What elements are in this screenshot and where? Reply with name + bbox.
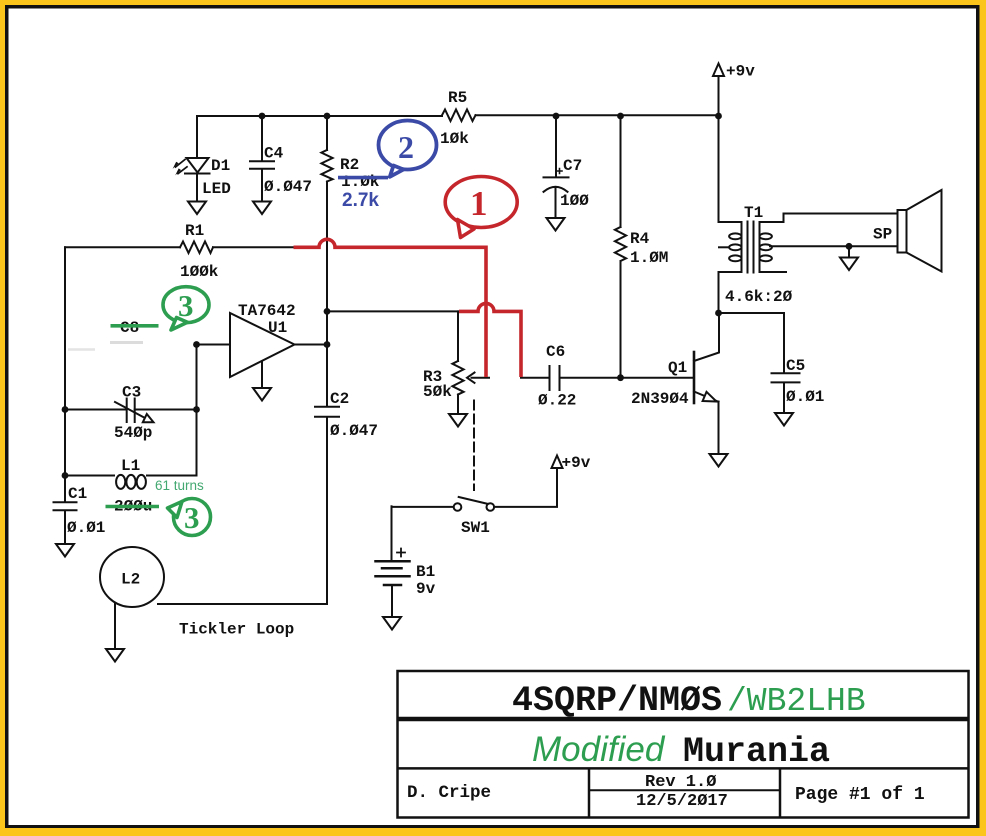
svg-text:54Øp: 54Øp <box>114 424 152 442</box>
svg-text:+9v: +9v <box>562 454 591 472</box>
+9v arrow at switch <box>552 456 563 469</box>
erased wire artifact near C8 <box>110 341 143 344</box>
wire U1 ground stem <box>261 362 263 389</box>
wire T1 secondary top lead to speaker <box>760 214 898 223</box>
svg-text:Ø.Ø1: Ø.Ø1 <box>67 519 105 537</box>
wire top rail right segment <box>476 114 719 116</box>
inductor L2 loop <box>100 547 164 607</box>
ground under D1 <box>188 202 206 215</box>
svg-text:C4: C4 <box>264 145 284 163</box>
svg-text:D. Cripe: D. Cripe <box>407 783 491 803</box>
wire D1 bottom stem <box>196 174 198 202</box>
wire T1 secondary tap to speaker <box>770 245 898 247</box>
svg-text:R5: R5 <box>448 89 467 107</box>
ground under U1 <box>253 388 271 401</box>
capacitor C4 plates <box>250 161 274 168</box>
Q1 emitter <box>694 392 719 402</box>
svg-text:SP: SP <box>873 226 892 244</box>
svg-text:C7: C7 <box>563 157 582 175</box>
wire R3 top lead <box>457 311 459 361</box>
wire U1 input lead <box>197 344 231 346</box>
wire L2 left lead <box>114 604 116 649</box>
svg-text:9v: 9v <box>416 580 436 598</box>
Q1 emitter arrowhead <box>703 392 717 402</box>
node dots <box>62 113 853 479</box>
T1 primary center-tap stub <box>719 246 729 248</box>
capacitor C3 trimmer arrow <box>115 402 146 419</box>
wire wiper to C6 <box>521 377 550 379</box>
svg-text:5Øk: 5Øk <box>423 383 452 401</box>
svg-text:C1: C1 <box>68 485 87 503</box>
capacitor C6 plates <box>550 366 560 390</box>
wire C5 bottom stem <box>783 383 785 413</box>
red modification wire 2 <box>459 303 521 377</box>
svg-text:TA7642: TA7642 <box>238 302 296 320</box>
svg-text:L1: L1 <box>121 457 140 475</box>
wire R4 top lead <box>620 116 622 227</box>
svg-text:Ø.Ø47: Ø.Ø47 <box>264 178 312 196</box>
junction R2/top rail <box>324 113 331 120</box>
dashed mechanical link R3 to SW1 <box>473 401 475 491</box>
svg-text:C8: C8 <box>120 319 139 337</box>
capacitor C5 plates <box>772 373 800 382</box>
svg-text:R1: R1 <box>185 222 204 240</box>
resistor R5 <box>442 110 476 122</box>
wire C5 top lead <box>719 313 785 372</box>
junction left rail/L1 <box>62 472 69 479</box>
junction left rail/C3 <box>62 406 69 413</box>
green strike over 200u <box>106 505 160 509</box>
green strike over C8 <box>111 324 159 328</box>
speaker SP body <box>898 210 907 253</box>
svg-text:1ØØk: 1ØØk <box>180 263 219 281</box>
wire C3 left lead <box>65 409 126 411</box>
svg-text:1ØØ: 1ØØ <box>560 192 589 210</box>
wire U1 output lead <box>295 344 328 346</box>
svg-text:1.Øk: 1.Øk <box>341 173 380 191</box>
op-amp U1 TA7642 triangle <box>230 313 295 377</box>
resistor R4 <box>615 227 626 264</box>
C7 polarity plus <box>557 169 562 174</box>
svg-text:61 turns: 61 turns <box>155 478 204 493</box>
switch SW1 right wire <box>494 469 557 507</box>
svg-text:1Øk: 1Øk <box>440 130 469 148</box>
junction C4/top rail <box>259 113 266 120</box>
+9v arrow top right <box>713 64 724 77</box>
wire L1 right lead <box>147 475 197 477</box>
switch SW1 left wire <box>392 506 454 508</box>
T1 secondary bottom stub <box>760 271 787 273</box>
resistor R3 potentiometer <box>452 361 463 395</box>
Q1 collector <box>694 313 719 361</box>
capacitor C1 plates <box>54 502 77 510</box>
wire C4 bottom stem <box>261 169 263 202</box>
wire speaker ground stem <box>848 246 850 257</box>
transformer T1 primary winding <box>741 222 743 272</box>
junction +9v/T1/top rail <box>715 113 722 120</box>
wire R1 left lead <box>65 246 180 248</box>
wire C4 branch <box>261 116 263 160</box>
title block frame <box>398 671 969 818</box>
junction R4/Q1 base <box>617 374 624 381</box>
capacitor C2 plates <box>315 407 339 417</box>
svg-text:Murania: Murania <box>683 732 830 772</box>
svg-text:4SQRP/NMØS: 4SQRP/NMØS <box>512 681 722 721</box>
junction T1/C5/Q1 collector <box>715 310 722 317</box>
wire C3 right lead <box>135 409 197 411</box>
junction C3/L1 riser <box>193 406 200 413</box>
svg-text:12/5/2Ø17: 12/5/2Ø17 <box>636 792 728 811</box>
resistor R1 <box>180 242 213 254</box>
ground under C7 <box>547 218 565 231</box>
wire D1 branch <box>196 116 198 158</box>
transformer T1 core <box>748 222 754 273</box>
LED D1 light arrows <box>176 160 186 168</box>
svg-text:LED: LED <box>202 180 231 198</box>
capacitor C7 curved plate <box>544 187 568 192</box>
svg-text:3: 3 <box>184 500 200 535</box>
wire left rail <box>64 247 66 502</box>
wire tickler horizontal <box>158 603 327 605</box>
svg-text:2.7k: 2.7k <box>342 190 379 211</box>
svg-text:SW1: SW1 <box>461 519 490 537</box>
svg-text:2: 2 <box>398 129 414 165</box>
speaker SP cone <box>907 190 942 272</box>
ground under speaker line <box>840 258 858 271</box>
green balloon 3 upper <box>163 287 209 330</box>
switch SW1 contacts <box>454 503 462 511</box>
battery B1 polarity plus <box>397 549 405 557</box>
ground under Q1 <box>710 454 728 467</box>
wire R4 bottom lead <box>620 261 622 378</box>
svg-text:L2: L2 <box>121 571 140 589</box>
svg-text:Page #1 of 1: Page #1 of 1 <box>795 785 925 805</box>
svg-text:B1: B1 <box>416 563 435 581</box>
transformer T1 secondary winding <box>759 222 761 272</box>
svg-text:1: 1 <box>470 184 488 223</box>
wire C7 bottom stem <box>555 187 557 218</box>
wire U1 input vertical <box>196 345 198 476</box>
blue balloon 2 <box>379 121 437 177</box>
capacitor C7 top plate <box>544 176 569 178</box>
svg-text:C2: C2 <box>330 390 349 408</box>
wire L1 left lead <box>65 475 114 477</box>
wire tap to R3 top <box>327 310 458 312</box>
wire top rail left segment <box>197 115 442 117</box>
wire T1 primary top lead <box>719 116 742 222</box>
ground under R3 <box>449 414 467 427</box>
svg-text:Q1: Q1 <box>668 359 687 377</box>
wire +9v stem top <box>718 76 720 116</box>
junction R4/top rail <box>617 113 624 120</box>
red modification wire 1 <box>294 239 522 377</box>
ground under C1 <box>56 544 74 557</box>
svg-text:4.6k:2Ø: 4.6k:2Ø <box>725 288 793 306</box>
junction R2 leg/R3 tap <box>324 308 331 315</box>
ground under L2 <box>106 649 124 662</box>
svg-text:1.ØM: 1.ØM <box>630 249 668 267</box>
wire C1 bottom stem <box>64 511 66 545</box>
wire T1 primary bottom lead <box>719 272 742 313</box>
svg-text:C6: C6 <box>546 343 565 361</box>
LED D1 triangle <box>187 158 209 173</box>
svg-text:D1: D1 <box>211 157 230 175</box>
battery B1 bottom stem <box>391 585 393 617</box>
ground under C4 <box>253 202 271 215</box>
junction C7/top rail <box>553 113 560 120</box>
red balloon 1 <box>445 177 517 238</box>
junction speaker ground <box>846 243 853 250</box>
blue strike over 1.0k <box>338 176 388 180</box>
svg-text:Rev 1.Ø: Rev 1.Ø <box>645 773 716 792</box>
svg-text:+9v: +9v <box>726 63 755 81</box>
switch SW1 lever <box>459 497 488 504</box>
svg-text:Ø.Ø1: Ø.Ø1 <box>786 388 824 406</box>
svg-text:U1: U1 <box>268 319 287 337</box>
inductor L1 turns <box>116 475 125 489</box>
junction U1 output <box>324 341 331 348</box>
battery B1 top stem <box>391 506 393 561</box>
svg-text:T1: T1 <box>744 204 763 222</box>
wire C2 bottom long vertical <box>326 417 328 604</box>
wire R3 bottom lead <box>457 395 459 415</box>
svg-text:R4: R4 <box>630 230 650 248</box>
wire R2 bottom long vertical <box>326 182 328 406</box>
wire Q1 emitter to ground <box>718 402 720 455</box>
transistor Q1 base bar <box>693 352 696 403</box>
svg-text:Modified: Modified <box>532 730 666 769</box>
svg-text:Ø.22: Ø.22 <box>538 392 576 410</box>
green balloon 3 lower <box>168 499 211 536</box>
R3 wiper arrow <box>472 377 490 379</box>
svg-text:Ø.Ø47: Ø.Ø47 <box>330 422 378 440</box>
svg-text:C3: C3 <box>122 384 141 402</box>
svg-text:2N39Ø4: 2N39Ø4 <box>631 390 689 408</box>
ground under C5 <box>775 413 793 426</box>
battery B1 plates <box>376 560 410 563</box>
capacitor C3 plates <box>127 399 135 423</box>
wire C6 to Q1 base <box>560 377 695 379</box>
svg-text:/WB2LHB: /WB2LHB <box>727 683 866 720</box>
black component labels <box>67 63 892 639</box>
svg-text:R2: R2 <box>340 156 359 174</box>
junction U1 input <box>193 341 200 348</box>
wire R2 top lead <box>326 116 328 150</box>
svg-text:Tickler Loop: Tickler Loop <box>179 621 294 639</box>
resistor R2 <box>321 150 332 182</box>
ground under B1 <box>383 617 401 630</box>
wire C7 branch <box>555 116 557 176</box>
svg-text:3: 3 <box>178 288 194 323</box>
LED D1 cathode bar <box>185 173 210 175</box>
svg-text:C5: C5 <box>786 357 805 375</box>
wire R1 right segment <box>213 246 296 248</box>
